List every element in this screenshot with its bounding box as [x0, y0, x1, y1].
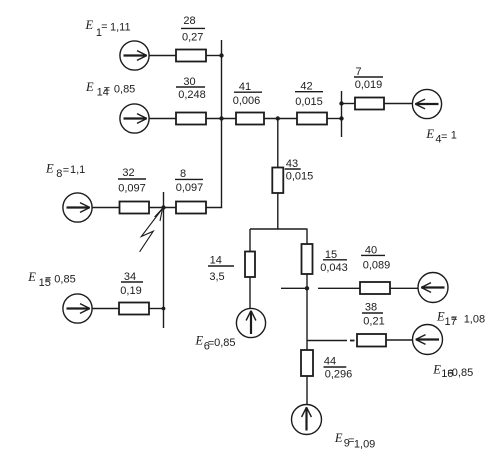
- svg-text:=: =: [104, 84, 110, 96]
- source E8: [63, 193, 92, 222]
- svg-text:E: E: [425, 127, 434, 141]
- svg-text:0,85: 0,85: [54, 273, 75, 285]
- svg-text:1: 1: [451, 129, 457, 141]
- node B dot: [305, 286, 309, 290]
- label 28/0,27: [182, 15, 203, 44]
- resistor R44: [301, 350, 313, 376]
- svg-text:E: E: [334, 431, 343, 445]
- svg-text:0,85: 0,85: [214, 337, 235, 349]
- svg-text:43: 43: [286, 158, 298, 170]
- node A dot: [276, 116, 280, 120]
- wire R42 to bus3: [327, 118, 342, 120]
- svg-text:=: =: [441, 131, 447, 143]
- wire T right leg: [306, 229, 308, 244]
- source E15: [63, 294, 92, 323]
- source E1: [120, 41, 149, 70]
- svg-text:=: =: [451, 313, 457, 325]
- label 38/0,21: [363, 302, 384, 328]
- wire R28 to bus1: [206, 55, 222, 57]
- svg-text:E: E: [432, 362, 441, 376]
- wire R32 to R8: [149, 207, 176, 209]
- wire R43 to T junction: [277, 193, 279, 229]
- source E17 circle: [418, 273, 448, 303]
- source E9: [292, 405, 322, 435]
- svg-text:8: 8: [180, 168, 186, 180]
- label E8 = 1,1: [45, 162, 85, 181]
- source E16 circle: [413, 325, 443, 355]
- resistor R7: [355, 98, 384, 110]
- svg-text:30: 30: [183, 76, 195, 88]
- wire R14 to E6: [249, 277, 251, 309]
- wire bus3 to R7: [342, 103, 356, 105]
- svg-text:0,043: 0,043: [320, 262, 348, 274]
- source E4: [412, 89, 441, 118]
- svg-text:0,015: 0,015: [286, 171, 314, 183]
- label 34/0,19: [120, 271, 141, 297]
- wire node B to R40: [318, 287, 360, 289]
- wire E15 to R34: [92, 308, 119, 310]
- wire node A down to R43: [277, 119, 279, 168]
- wire R44 to E9: [306, 376, 308, 404]
- resistor R30: [176, 113, 206, 125]
- wire R7 to E4: [384, 103, 412, 105]
- svg-text:0,019: 0,019: [355, 79, 383, 91]
- wire dash before R38: [350, 340, 355, 342]
- svg-text:32: 32: [122, 167, 134, 179]
- label E14 = 0,85: [85, 80, 135, 99]
- node dot bus2/row4: [162, 307, 166, 311]
- svg-text:3,5: 3,5: [209, 271, 224, 283]
- svg-text:8: 8: [56, 168, 62, 180]
- wire R41 to R42: [264, 118, 297, 120]
- svg-text:1,08: 1,08: [464, 313, 485, 325]
- svg-text:0,19: 0,19: [120, 285, 141, 297]
- wire R40 to E17: [390, 287, 418, 289]
- label 43/0,015: [286, 158, 314, 183]
- svg-text:E: E: [195, 334, 204, 348]
- label 30/0,248: [178, 76, 206, 101]
- wire stub left of node B: [281, 287, 307, 289]
- label E4 = 1: [425, 127, 457, 145]
- svg-text:1,1: 1,1: [70, 164, 85, 176]
- label E1 = 1,11: [85, 18, 131, 39]
- svg-text:E: E: [85, 80, 94, 94]
- label 42/0,015: [295, 81, 323, 109]
- wire R38 to E16: [386, 339, 413, 341]
- label 7/0,019: [355, 66, 383, 91]
- label E17 = 1,08: [436, 310, 485, 328]
- svg-text:0,21: 0,21: [363, 316, 384, 328]
- resistor R34: [119, 303, 149, 315]
- wire vertical to R38 branch: [307, 340, 347, 342]
- svg-text:=: =: [45, 274, 51, 286]
- label 8/0,097: [176, 168, 204, 194]
- svg-text:42: 42: [300, 81, 312, 93]
- resistor R38: [357, 334, 386, 347]
- lightning fault arrow: [140, 209, 163, 252]
- wire E1 to R28: [149, 55, 176, 57]
- svg-text:0,089: 0,089: [363, 260, 391, 272]
- resistor R28: [176, 50, 206, 62]
- svg-text:41: 41: [239, 81, 251, 93]
- wire T left leg: [249, 229, 251, 252]
- resistor R41: [236, 113, 264, 125]
- label 14/3,5: [209, 255, 224, 284]
- svg-text:=: =: [101, 21, 107, 33]
- svg-text:14: 14: [210, 255, 222, 267]
- svg-text:28: 28: [183, 15, 195, 27]
- resistor R14: [245, 252, 255, 278]
- node dot bus1/row2: [219, 116, 223, 120]
- label E16 = 0,85: [432, 362, 473, 380]
- label 32/0,097: [118, 167, 146, 195]
- resistor R43: [272, 168, 283, 194]
- source E14: [120, 104, 149, 133]
- resistor R42: [297, 113, 327, 125]
- svg-text:0,097: 0,097: [118, 183, 146, 195]
- bus line 3: [341, 91, 343, 137]
- resistor R40: [360, 282, 390, 294]
- label 15/0,043: [320, 249, 348, 274]
- wire R30 to R41: [206, 118, 236, 120]
- wire R34 to bus2: [149, 308, 164, 310]
- svg-text:E: E: [85, 18, 94, 32]
- label E9 = 1,09: [334, 431, 375, 450]
- wire E14 to R30: [149, 118, 176, 120]
- bus line 1: [221, 40, 223, 208]
- svg-text:1,11: 1,11: [110, 21, 131, 33]
- svg-text:0,248: 0,248: [178, 89, 206, 101]
- resistor R15: [302, 244, 313, 274]
- svg-text:34: 34: [124, 271, 136, 283]
- svg-text:0,85: 0,85: [452, 367, 473, 379]
- source E6: [236, 308, 265, 337]
- svg-text:44: 44: [324, 356, 336, 368]
- node dot bus3/E4 row: [339, 101, 343, 105]
- wire R15 to R44 vertical: [306, 274, 308, 350]
- resistor R8: [176, 202, 206, 214]
- svg-text:0,006: 0,006: [233, 95, 261, 107]
- svg-text:0,015: 0,015: [295, 96, 323, 108]
- svg-text:0,85: 0,85: [114, 84, 135, 96]
- bus line 2: [163, 192, 165, 328]
- svg-text:=: =: [63, 165, 69, 177]
- label E6 = 0,85: [195, 334, 236, 353]
- svg-text:E: E: [45, 162, 54, 176]
- label 40/0,089: [363, 244, 391, 271]
- label E15 = 0,85: [27, 270, 75, 289]
- svg-text:40: 40: [365, 244, 377, 256]
- svg-text:0,27: 0,27: [182, 32, 203, 44]
- svg-text:38: 38: [365, 302, 377, 314]
- svg-text:1,09: 1,09: [354, 438, 375, 450]
- node dot bus3/row2: [339, 116, 343, 120]
- resistor R32: [120, 202, 150, 214]
- wire T bar: [250, 228, 308, 230]
- wire E8 to R32: [92, 207, 120, 209]
- svg-text:7: 7: [355, 66, 361, 78]
- svg-text:E: E: [27, 270, 36, 284]
- label 41/0,006: [233, 81, 261, 107]
- svg-text:0,296: 0,296: [325, 369, 353, 381]
- label 44/0,296: [324, 356, 352, 381]
- node dot bus1/row1: [219, 53, 223, 57]
- wire R8 to bus1 bottom corner: [206, 207, 222, 209]
- svg-text:0,097: 0,097: [176, 182, 204, 194]
- node dot bus2/row3: [161, 205, 165, 209]
